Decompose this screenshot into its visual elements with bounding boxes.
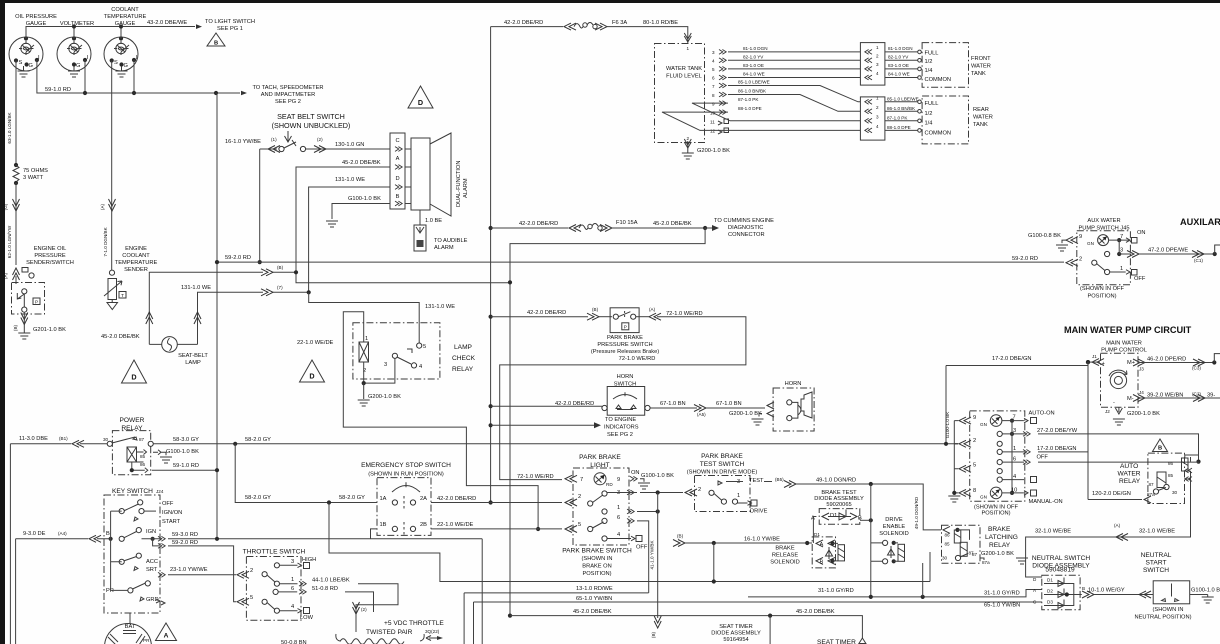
svg-text:1: 1 bbox=[291, 577, 294, 583]
svg-text:13-1.0 RD/WE: 13-1.0 RD/WE bbox=[576, 586, 613, 592]
svg-text:ALARM: ALARM bbox=[434, 245, 454, 251]
svg-text:D: D bbox=[131, 373, 136, 382]
svg-text:131-1.0 WE: 131-1.0 WE bbox=[425, 304, 455, 310]
svg-text:32-1.0 WE/BE: 32-1.0 WE/BE bbox=[1035, 529, 1071, 535]
wire 51-0.8 RD down bbox=[345, 592, 374, 612]
svg-text:SEE PG 2: SEE PG 2 bbox=[275, 99, 301, 105]
svg-text:86: 86 bbox=[140, 462, 146, 467]
svg-text:NEUTRAL: NEUTRAL bbox=[1141, 552, 1172, 559]
svg-text:ENGINE OIL: ENGINE OIL bbox=[34, 246, 67, 252]
svg-text:4: 4 bbox=[876, 71, 879, 76]
svg-text:9-3.0 DE: 9-3.0 DE bbox=[23, 531, 46, 537]
node MAIN WATER PUMP CIRCUIT header bbox=[1064, 325, 1192, 335]
svg-text:T: T bbox=[121, 293, 124, 298]
wire OFF pin6 to relay bbox=[1038, 461, 1199, 464]
wire 9-3.0 DE (A4) bbox=[16, 511, 128, 644]
wire 58-3.0 GY / 58-2.0 GY bbox=[153, 437, 958, 446]
svg-text:3 WATT: 3 WATT bbox=[23, 175, 44, 181]
svg-text:11: 11 bbox=[710, 120, 715, 125]
svg-text:POSITION): POSITION) bbox=[981, 511, 1010, 517]
svg-text:G100-1.0 BK: G100-1.0 BK bbox=[348, 196, 381, 202]
wire 59-1.0 RD (power relay out) bbox=[152, 463, 219, 472]
svg-text:FRONT: FRONT bbox=[971, 56, 991, 62]
wire 17-2.0 DBE/GN pin1 riser bbox=[1038, 452, 1088, 500]
wire 45-2.0 DBE/BK into A bbox=[296, 160, 509, 283]
svg-text:47-2.0 DPE/WE: 47-2.0 DPE/WE bbox=[1148, 248, 1188, 254]
svg-text:AUTO-ON: AUTO-ON bbox=[1029, 411, 1055, 417]
svg-text:45-2.0 DBE/BK: 45-2.0 DBE/BK bbox=[573, 609, 612, 615]
svg-text:50-0.8 BN: 50-0.8 BN bbox=[281, 640, 307, 644]
svg-text:INDICATORS: INDICATORS bbox=[604, 425, 639, 431]
wire G100-1.0 BK (power relay) bbox=[153, 449, 199, 463]
svg-text:16-1.0 YW/BE: 16-1.0 YW/BE bbox=[225, 139, 261, 145]
svg-text:(B): (B) bbox=[651, 631, 656, 638]
svg-text:G100-0.8 BK: G100-0.8 BK bbox=[1028, 233, 1061, 239]
svg-text:4: 4 bbox=[617, 532, 620, 538]
wire 131-1.0 WE into D bbox=[309, 177, 390, 292]
svg-text:(2): (2) bbox=[361, 607, 367, 612]
svg-text:SEE PG 1: SEE PG 1 bbox=[217, 26, 243, 32]
svg-text:PARK BRAKE: PARK BRAKE bbox=[607, 335, 643, 341]
svg-text:CONNECTOR: CONNECTOR bbox=[728, 232, 765, 238]
wire 42-2.0 DBE/RD from 2A bbox=[431, 496, 562, 503]
svg-text:J4: J4 bbox=[1139, 390, 1144, 395]
svg-text:TANK: TANK bbox=[971, 71, 986, 77]
svg-text:C: C bbox=[395, 138, 399, 144]
svg-text:LAMP: LAMP bbox=[454, 344, 473, 351]
wire 41-1.0 YW/BK (B) bbox=[650, 493, 662, 639]
wire G100-1.0 BK (NSS) bbox=[1190, 588, 1220, 604]
svg-text:DRIVE: DRIVE bbox=[750, 509, 768, 515]
wire 58-2.0 GY into pump block pin2 bbox=[954, 443, 958, 445]
wire 1.0 BE to audible alarm bbox=[414, 210, 468, 251]
svg-text:B: B bbox=[214, 41, 218, 47]
svg-text:17-2.0 DBE/GN: 17-2.0 DBE/GN bbox=[1037, 446, 1077, 452]
svg-text:(G): (G) bbox=[3, 203, 8, 210]
svg-text:59020065: 59020065 bbox=[826, 502, 851, 508]
svg-text:58-2.0 GY: 58-2.0 GY bbox=[339, 495, 365, 501]
svg-text:SENDER: SENDER bbox=[124, 267, 148, 273]
svg-text:PR: PR bbox=[106, 588, 114, 594]
wire 7-1.0 DGN/BK coolant sender column bbox=[100, 61, 116, 271]
svg-text:(2): (2) bbox=[317, 137, 323, 142]
svg-text:G100-1.0 BK: G100-1.0 BK bbox=[945, 411, 950, 438]
battery BAT bbox=[105, 613, 152, 644]
svg-text:D2: D2 bbox=[1047, 589, 1053, 594]
switch SEAT BELT SWITCH bbox=[225, 112, 390, 153]
junction 59-3.0 RD tap 58 GY bbox=[327, 500, 930, 581]
svg-text:HORN: HORN bbox=[617, 374, 634, 380]
wire 49-1.0 DGN/RD bbox=[764, 477, 941, 530]
svg-text:TEMPERATURE: TEMPERATURE bbox=[115, 260, 158, 266]
svg-text:4: 4 bbox=[712, 59, 715, 64]
svg-text:AND IMPACTMETER: AND IMPACTMETER bbox=[261, 92, 316, 98]
svg-text:(SHOWN IN RUN POSITION): (SHOWN IN RUN POSITION) bbox=[368, 472, 444, 478]
svg-text:1: 1 bbox=[1013, 446, 1016, 452]
svg-text:87: 87 bbox=[972, 552, 978, 557]
svg-text:P: P bbox=[624, 325, 627, 330]
svg-text:AUXILARY: AUXILARY bbox=[1180, 217, 1220, 227]
svg-text:4: 4 bbox=[876, 124, 879, 129]
svg-text:B: B bbox=[1082, 586, 1085, 591]
svg-text:TEST SWITCH: TEST SWITCH bbox=[700, 461, 745, 468]
svg-text:(B): (B) bbox=[592, 307, 599, 312]
wire 59-2.0 RD from IGN lower bbox=[153, 539, 236, 602]
svg-text:B: B bbox=[820, 560, 824, 566]
wire ground left of pump block bbox=[948, 421, 960, 502]
svg-text:1: 1 bbox=[617, 505, 620, 511]
wire 27-2.0 DBE/YW bbox=[1038, 434, 1201, 464]
svg-text:TO LIGHT SWITCH: TO LIGHT SWITCH bbox=[205, 19, 255, 25]
svg-text:POSITION): POSITION) bbox=[582, 571, 611, 577]
svg-text:J24: J24 bbox=[156, 489, 164, 494]
svg-text:PARK BRAKE: PARK BRAKE bbox=[701, 453, 743, 460]
svg-text:G200-1.0 BK: G200-1.0 BK bbox=[697, 148, 730, 154]
svg-text:67-1.0 BN: 67-1.0 BN bbox=[716, 401, 742, 407]
wire 85-1.0 LBE/WE bbox=[728, 80, 860, 102]
switch PARK BRAKE PRESSURE SWITCH bbox=[591, 308, 659, 355]
svg-text:82-1.0 YV: 82-1.0 YV bbox=[888, 54, 909, 59]
svg-text:SEAT BELT SWITCH: SEAT BELT SWITCH bbox=[277, 112, 345, 121]
svg-text:3Q(22): 3Q(22) bbox=[425, 629, 440, 634]
svg-text:LATCHING: LATCHING bbox=[985, 534, 1018, 541]
svg-text:2: 2 bbox=[876, 105, 879, 110]
svg-text:SEAT TIMER: SEAT TIMER bbox=[719, 624, 753, 630]
svg-text:9: 9 bbox=[712, 102, 715, 107]
svg-text:30: 30 bbox=[103, 437, 109, 442]
ground gauge3 bbox=[116, 66, 128, 77]
svg-text:J3: J3 bbox=[1139, 367, 1144, 372]
svg-text:DIAGNOSTIC: DIAGNOSTIC bbox=[728, 225, 763, 231]
svg-text:4: 4 bbox=[1013, 474, 1016, 480]
svg-text:83-1.0 OE: 83-1.0 OE bbox=[743, 63, 764, 68]
relay AUTO WATER RELAY bbox=[1118, 453, 1199, 503]
svg-text:88-1.0 DPE: 88-1.0 DPE bbox=[887, 125, 911, 130]
svg-text:(A4): (A4) bbox=[58, 531, 67, 536]
wire 43-2.0 DBE/WE to light switch bbox=[26, 20, 202, 39]
svg-text:F10 15A: F10 15A bbox=[616, 220, 638, 226]
connector C A D B block bbox=[390, 133, 405, 209]
svg-text:59-3.0 RD: 59-3.0 RD bbox=[172, 532, 198, 538]
svg-text:83-1.0 OE: 83-1.0 OE bbox=[888, 63, 909, 68]
gauge VOLTMETER bbox=[57, 21, 94, 71]
svg-text:3: 3 bbox=[291, 559, 294, 565]
svg-text:PARK BRAKE SWITCH: PARK BRAKE SWITCH bbox=[562, 548, 632, 555]
svg-text:A: A bbox=[396, 156, 400, 162]
svg-text:42-2.0 DBE/RD: 42-2.0 DBE/RD bbox=[504, 20, 543, 26]
switch HORN SWITCH bbox=[602, 374, 650, 415]
svg-text:49-1.0 DGN/RD: 49-1.0 DGN/RD bbox=[816, 478, 856, 484]
switch AUX WATER PUMP SWITCH J45 bbox=[1066, 218, 1146, 300]
fuse arrow into tank pin1 bbox=[684, 33, 691, 51]
svg-text:87: 87 bbox=[139, 437, 145, 442]
wire 67-1.0 BN to horn bbox=[650, 401, 774, 425]
svg-text:FLUID LEVEL: FLUID LEVEL bbox=[666, 74, 702, 80]
diode assembly SEAT TIMER DIODE ASSEMBLY 59164954 bbox=[711, 624, 761, 643]
svg-text:P: P bbox=[35, 299, 38, 304]
svg-text:22-1.0 WE/DE: 22-1.0 WE/DE bbox=[297, 340, 334, 346]
lamp SEAT-BELT LAMP bbox=[149, 337, 208, 366]
svg-text:42-2.0 DBE/RD: 42-2.0 DBE/RD bbox=[519, 221, 558, 227]
svg-text:88-1.0 DPE: 88-1.0 DPE bbox=[738, 106, 762, 111]
node TO ENGINE INDICATORS SEE PG 2 bbox=[491, 417, 639, 438]
svg-text:SEAT-BELT: SEAT-BELT bbox=[178, 353, 208, 359]
wire 72-1.0 WE/RD from pressure switch bbox=[500, 307, 746, 480]
switch PARK BRAKE SWITCH bbox=[562, 490, 683, 593]
wire 45-2.0 DBE/BK bottom bbox=[510, 609, 862, 644]
svg-text:59-2.0 RD: 59-2.0 RD bbox=[1012, 256, 1038, 262]
svg-text:49-1.0 DGN/RD: 49-1.0 DGN/RD bbox=[914, 496, 919, 529]
svg-text:31-1.0 GY/RD: 31-1.0 GY/RD bbox=[818, 588, 854, 594]
switch THROTTLE SWITCH bbox=[237, 549, 350, 622]
svg-text:1.0 BE: 1.0 BE bbox=[425, 218, 442, 224]
svg-text:9: 9 bbox=[1079, 234, 1082, 240]
svg-text:TO TACH, SPEEDOMETER: TO TACH, SPEEDOMETER bbox=[252, 85, 323, 91]
svg-text:87a: 87a bbox=[982, 560, 990, 565]
wire 32-1.0 WE/BE bbox=[1026, 503, 1191, 577]
wire 13-1.0 RD/WE bbox=[464, 586, 648, 644]
svg-text:(A): (A) bbox=[100, 203, 105, 210]
svg-text:131-1.0 WE: 131-1.0 WE bbox=[181, 285, 211, 291]
svg-text:1B: 1B bbox=[380, 522, 387, 528]
wire 131-1.0 WE lamp right branch bbox=[181, 285, 311, 344]
svg-text:45-2.0 DBE/BK: 45-2.0 DBE/BK bbox=[101, 334, 140, 340]
svg-text:-: - bbox=[1113, 400, 1115, 406]
wire 63-1.0 LGN/BK left column bbox=[7, 61, 16, 164]
svg-text:B: B bbox=[1158, 446, 1162, 452]
component HORN bbox=[773, 381, 814, 431]
svg-text:(SHOWN UNBUCKLED): (SHOWN UNBUCKLED) bbox=[272, 121, 351, 130]
wire 47-2.0 DPE/WE bbox=[1139, 245, 1220, 263]
node TO TACH SPEEDOMETER bbox=[252, 85, 323, 105]
resistor 75 OHMS 3 WATT bbox=[13, 163, 48, 185]
svg-text:2: 2 bbox=[698, 487, 701, 493]
svg-text:DIODE ASSEMBLY: DIODE ASSEMBLY bbox=[711, 631, 761, 637]
svg-text:PRESSURE SWITCH: PRESSURE SWITCH bbox=[597, 342, 652, 348]
wire 1B to 59-3.0 RD bbox=[371, 529, 378, 539]
svg-text:A: A bbox=[164, 633, 169, 640]
wire (G) 62-1.0 LGN/YW bbox=[3, 183, 20, 284]
svg-text:131-1.0 WE: 131-1.0 WE bbox=[335, 177, 365, 183]
svg-text:D: D bbox=[418, 98, 423, 107]
svg-text:D: D bbox=[395, 176, 399, 182]
svg-text:75 OHMS: 75 OHMS bbox=[23, 168, 48, 174]
svg-text:81-1.0 DGN: 81-1.0 DGN bbox=[743, 46, 768, 51]
connector rear tank bbox=[860, 96, 885, 141]
svg-text:1: 1 bbox=[1120, 266, 1123, 272]
svg-text:SEE PG 2: SEE PG 2 bbox=[607, 432, 633, 438]
svg-text:85: 85 bbox=[1168, 473, 1174, 478]
connector front tank bbox=[860, 43, 885, 86]
component MAIN WATER PUMP CONTROL bbox=[1086, 341, 1220, 408]
diode assembly BRAKE TEST DIODE ASSEMBLY 59020065 bbox=[811, 484, 873, 561]
svg-text:B: B bbox=[106, 531, 110, 537]
svg-text:AUX WATER: AUX WATER bbox=[1087, 218, 1120, 224]
ground G100 (alarm) bbox=[326, 221, 338, 227]
wire 17-2.0 DBE/GN top bbox=[944, 356, 1090, 500]
wire 44-1.0 LBE/BK down to twisted pair bbox=[353, 584, 399, 632]
triangle B bbox=[207, 33, 225, 47]
svg-text:1: 1 bbox=[687, 46, 690, 51]
svg-text:1: 1 bbox=[876, 45, 879, 50]
wire J2 G200-1.0 BK (main pump) bbox=[1105, 400, 1160, 425]
svg-text:RELAY: RELAY bbox=[989, 542, 1011, 549]
svg-text:7: 7 bbox=[580, 477, 583, 483]
svg-text:START: START bbox=[1145, 560, 1166, 567]
svg-text:GN: GN bbox=[980, 422, 987, 427]
wire G100-0.8 BK (aux pump) bbox=[1028, 233, 1068, 251]
svg-text:8: 8 bbox=[973, 488, 976, 494]
svg-text:SOLENOID: SOLENOID bbox=[879, 531, 908, 537]
svg-text:84-1.0 WE: 84-1.0 WE bbox=[888, 72, 910, 77]
triangle D (22-1.0) bbox=[300, 360, 325, 382]
svg-text:5: 5 bbox=[423, 344, 426, 350]
svg-text:27-2.0 DBE/YW: 27-2.0 DBE/YW bbox=[1037, 428, 1078, 434]
component WATER TANK FLUID LEVEL bbox=[655, 44, 729, 143]
svg-text:7: 7 bbox=[712, 84, 715, 89]
svg-text:81-1.0 DGN: 81-1.0 DGN bbox=[888, 46, 913, 51]
svg-text:5: 5 bbox=[250, 595, 253, 601]
svg-text:BRAKE: BRAKE bbox=[775, 546, 794, 552]
wire G200-1.0 BK (lamp relay) bbox=[358, 358, 401, 406]
svg-text:WATER: WATER bbox=[1118, 471, 1141, 478]
svg-text:(SHOWN IN DRIVE MODE): (SHOWN IN DRIVE MODE) bbox=[687, 470, 758, 476]
svg-text:2B: 2B bbox=[420, 522, 427, 528]
wire 58-2.0 GY drop to emergency stop bbox=[235, 444, 377, 503]
svg-text:58-3.0 GY: 58-3.0 GY bbox=[173, 437, 199, 443]
svg-text:LOW: LOW bbox=[300, 615, 314, 621]
svg-text:10-1.0 WE/GY: 10-1.0 WE/GY bbox=[1088, 588, 1125, 594]
wire 81-1.0 DGN bbox=[728, 46, 860, 52]
svg-text:59164954: 59164954 bbox=[723, 637, 748, 643]
wire 22-1.0 WE/DE from 2B bbox=[431, 522, 562, 529]
svg-text:6: 6 bbox=[617, 515, 620, 521]
svg-text:10: 10 bbox=[1011, 488, 1017, 494]
svg-text:3: 3 bbox=[876, 62, 879, 67]
switch KEY SWITCH J24 bbox=[104, 488, 182, 613]
relay LAMP CHECK RELAY bbox=[353, 323, 476, 379]
wire 42-2.0 DBE/RD top fuse feed bbox=[491, 20, 688, 35]
svg-text:51-0.8 RD: 51-0.8 RD bbox=[312, 586, 338, 592]
svg-text:POSITION): POSITION) bbox=[1087, 294, 1116, 300]
svg-text:2: 2 bbox=[578, 494, 581, 500]
svg-text:3: 3 bbox=[1120, 248, 1123, 254]
svg-text:46-2.0 DPE/RD: 46-2.0 DPE/RD bbox=[1147, 357, 1186, 363]
svg-text:SEAT TIMER: SEAT TIMER bbox=[817, 639, 856, 644]
svg-text:AUTO: AUTO bbox=[1120, 463, 1138, 470]
svg-text:NEUTRAL POSITION): NEUTRAL POSITION) bbox=[1135, 615, 1192, 621]
svg-text:PRESSURE: PRESSURE bbox=[34, 253, 65, 259]
svg-text:B: B bbox=[396, 194, 400, 200]
svg-text:86: 86 bbox=[945, 533, 951, 538]
svg-text:ON: ON bbox=[631, 470, 640, 476]
svg-text:G100-1.0 BK: G100-1.0 BK bbox=[166, 449, 199, 455]
svg-text:IGN/ON: IGN/ON bbox=[162, 510, 182, 516]
svg-text:D1: D1 bbox=[814, 532, 820, 537]
svg-text:1A: 1A bbox=[380, 496, 387, 502]
ground gauge1 bbox=[18, 66, 30, 77]
node AUXILARY header bbox=[1180, 217, 1220, 227]
svg-text:OFF: OFF bbox=[636, 545, 648, 551]
svg-text:59-2.0 RD: 59-2.0 RD bbox=[225, 255, 251, 261]
svg-text:85-1.0 LBE/WE: 85-1.0 LBE/WE bbox=[887, 96, 919, 101]
svg-text:65-1.0 YW/BN: 65-1.0 YW/BN bbox=[576, 596, 612, 602]
svg-text:BRAKE ON: BRAKE ON bbox=[582, 564, 611, 570]
svg-text:G200-1.0 BK: G200-1.0 BK bbox=[729, 411, 762, 417]
svg-text:12: 12 bbox=[710, 129, 716, 134]
svg-text:+5 VDC THROTTLE: +5 VDC THROTTLE bbox=[384, 620, 444, 627]
wire 87-1.0 PK bbox=[692, 97, 860, 121]
svg-text:LAMP: LAMP bbox=[185, 360, 201, 366]
wire 120-2.0 DE/GN bbox=[1088, 491, 1151, 503]
svg-text:2: 2 bbox=[250, 568, 253, 574]
svg-text:(7): (7) bbox=[277, 285, 283, 290]
wire 87 G200-1.0 BK (latching relay) bbox=[972, 551, 1028, 565]
svg-text:(B): (B) bbox=[13, 324, 18, 331]
wire tank pin2 G200-1.0 BK bbox=[682, 136, 730, 159]
svg-text:SRT: SRT bbox=[146, 567, 158, 573]
svg-text:G200-1.0 BK: G200-1.0 BK bbox=[368, 394, 401, 400]
switch NEUTRAL START SWITCH bbox=[1135, 552, 1192, 621]
triangle D (alarm) bbox=[408, 86, 433, 108]
svg-text:63-1.0 LGN/BK: 63-1.0 LGN/BK bbox=[7, 111, 12, 143]
svg-text:PR: PR bbox=[143, 638, 150, 643]
svg-text:22-1.0 WE/DE: 22-1.0 WE/DE bbox=[437, 522, 474, 528]
svg-text:OFF: OFF bbox=[162, 501, 174, 507]
svg-text:G201-1.0 BK: G201-1.0 BK bbox=[33, 327, 66, 333]
triangle B (auto water relay) bbox=[1153, 439, 1168, 452]
svg-text:SWITCH: SWITCH bbox=[1143, 567, 1169, 574]
svg-text:16-1.0 YW/BE: 16-1.0 YW/BE bbox=[744, 537, 780, 543]
svg-text:(C3): (C3) bbox=[1192, 366, 1201, 371]
svg-text:CHECK: CHECK bbox=[452, 355, 476, 362]
svg-text:2: 2 bbox=[1079, 257, 1082, 263]
component FRONT WATER TANK bbox=[922, 43, 991, 88]
svg-text:4: 4 bbox=[291, 604, 294, 610]
component DUAL-FUNCTION ALARM bbox=[405, 133, 469, 216]
component twisted pair bbox=[336, 620, 445, 644]
svg-text:(A): (A) bbox=[1114, 523, 1121, 528]
svg-text:120-2.0 DE/GN: 120-2.0 DE/GN bbox=[1092, 491, 1131, 497]
wire 84-1.0 WE bbox=[728, 72, 860, 78]
svg-text:17-2.0 DBE/GN: 17-2.0 DBE/GN bbox=[992, 356, 1032, 362]
svg-text:(Pressure Releases Brake): (Pressure Releases Brake) bbox=[591, 349, 659, 355]
wire 131-1.0 WE to lamp check relay pin5 bbox=[309, 292, 456, 343]
svg-text:23-1.0 YW/WE: 23-1.0 YW/WE bbox=[170, 567, 208, 573]
wire 22-1.0 WE/DE from relay pin1 bbox=[297, 312, 540, 531]
svg-text:M-: M- bbox=[1127, 396, 1134, 402]
svg-text:(SHOWN IN: (SHOWN IN bbox=[1153, 607, 1184, 613]
wire 16-1.0 YW/BE (B) bbox=[673, 534, 812, 584]
svg-text:59048819: 59048819 bbox=[1045, 567, 1075, 574]
wire 42-2.0 DBE/RD to park brake pressure switch bbox=[491, 307, 612, 320]
svg-text:(B5): (B5) bbox=[775, 477, 784, 482]
svg-text:84-1.0 WE: 84-1.0 WE bbox=[743, 72, 765, 77]
svg-text:FULL: FULL bbox=[925, 101, 939, 107]
svg-text:7: 7 bbox=[1013, 415, 1016, 421]
svg-text:ENABLE: ENABLE bbox=[883, 524, 906, 530]
svg-text:43-2.0 DBE/WE: 43-2.0 DBE/WE bbox=[147, 20, 187, 26]
svg-text:59-2.0 RD: 59-2.0 RD bbox=[172, 540, 198, 546]
svg-text:5: 5 bbox=[973, 463, 976, 469]
triangle A (battery) bbox=[156, 623, 177, 641]
svg-text:1: 1 bbox=[876, 96, 879, 101]
svg-text:RELEASE: RELEASE bbox=[772, 553, 798, 559]
svg-text:WATER: WATER bbox=[973, 115, 993, 121]
svg-text:NEUTRAL SWITCH: NEUTRAL SWITCH bbox=[1032, 555, 1091, 562]
svg-text:G100-1.0 BK: G100-1.0 BK bbox=[641, 473, 674, 479]
svg-text:1/2: 1/2 bbox=[925, 111, 933, 117]
